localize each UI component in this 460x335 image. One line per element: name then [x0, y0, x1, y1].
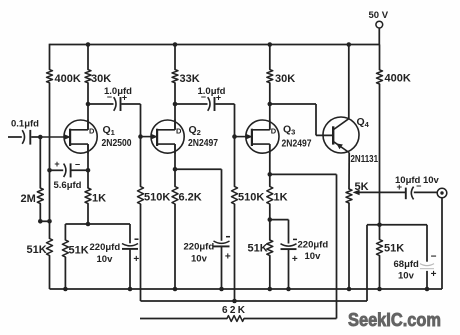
resistor 51K output: [377, 240, 405, 256]
wire bus to 30K stage3: [269, 45, 271, 70]
wire cap to gate Q3: [234, 104, 236, 137]
wire drain node into Q1: [87, 104, 89, 130]
svg-text:1.0μfd: 1.0μfd: [104, 86, 132, 97]
wire 510K down across rail: [140, 204, 142, 301]
svg-text:1K: 1K: [274, 192, 288, 204]
svg-text:50 V: 50 V: [369, 10, 389, 21]
wire 220ufd to rail: [129, 249, 131, 289]
svg-text:6.2K: 6.2K: [179, 192, 202, 204]
junction dot drain node Q2: [173, 102, 178, 107]
wire 510K stage3 to bias line: [234, 204, 236, 301]
wire 400K to source row: [49, 83, 51, 171]
capacitor 1.0ufd stage2: [175, 86, 235, 111]
watermark SeekIC.com: [348, 309, 441, 330]
svg-text:400K: 400K: [55, 73, 81, 85]
wire 30K to drain node: [87, 83, 89, 104]
transistor Q2 2N2497: [151, 120, 218, 154]
svg-text:51K: 51K: [27, 244, 47, 256]
resistor 400K right: [377, 70, 411, 85]
junction dot 400K source row: [47, 168, 52, 173]
wire 400K right to box: [379, 84, 381, 225]
svg-text:220μfd: 220μfd: [184, 242, 215, 253]
wire box to 51K output: [379, 225, 381, 240]
svg-text:SeekIC.com: SeekIC.com: [348, 309, 441, 330]
wire input node to 2M: [39, 137, 41, 188]
wire box top edge: [367, 224, 427, 226]
capacitor 68ufd: [394, 225, 437, 289]
svg-text:10μfd 10v: 10μfd 10v: [395, 175, 440, 186]
svg-text:+: +: [225, 252, 231, 263]
wire 220ufd stage2 to rail: [221, 246, 223, 289]
capacitor 10ufd output: [395, 175, 440, 199]
junction dot rail 6.2K: [173, 287, 178, 292]
wire cap to gate Q2: [140, 104, 142, 137]
capacitor 220ufd stage2: [184, 237, 231, 265]
junction dot rail 220ufd stage2: [219, 287, 224, 292]
svg-text:+: +: [54, 159, 59, 169]
junction dot gate Q3: [232, 134, 237, 139]
wire bus corner to 400K right: [379, 45, 381, 70]
wire 51K to ground rail: [49, 256, 51, 290]
wire bus to 33K: [174, 45, 176, 70]
wire bus to 400K: [49, 44, 51, 70]
transistor Q1 2N2500: [64, 120, 132, 154]
svg-text:62K: 62K: [222, 305, 247, 316]
wire emitter Q4 to 5K: [348, 153, 350, 189]
junction dot source Q2: [173, 167, 178, 172]
svg-text:510K: 510K: [144, 192, 170, 204]
wire box left edge: [366, 225, 368, 301]
resistor 510K stage2: [138, 187, 171, 205]
junction dot rail 51K output: [377, 287, 382, 292]
svg-text:2N2500: 2N2500: [102, 137, 132, 149]
junction dot 510K stage3 bias line: [232, 299, 237, 304]
wire gate arrow Q2: [141, 134, 158, 140]
junction dot rail 5K: [347, 287, 352, 292]
svg-text:30K: 30K: [275, 73, 295, 85]
junction dot collector bus Q4: [347, 42, 352, 47]
wire top supply bus: [50, 44, 380, 46]
resistor 33K: [172, 70, 200, 85]
wire 2M tie to 51K: [49, 221, 51, 238]
wire 1K to row node stage3: [269, 204, 271, 220]
wire source Q3 to 1K: [269, 174, 271, 186]
junction dot 2M tie right: [47, 219, 52, 224]
junction dot gate Q2: [138, 134, 143, 139]
wire row stage3 to cap: [270, 220, 289, 244]
wire source Q1 down: [87, 144, 89, 170]
junction dot 1K bottom stage3: [268, 217, 273, 222]
svg-text:10v: 10v: [191, 254, 208, 265]
resistor 51K stage1 right: [62, 240, 88, 257]
junction dot rail 51K stage3: [268, 287, 273, 292]
wire source Q2 bypass branch: [175, 169, 222, 241]
wire 6.2K to rail: [174, 204, 176, 289]
wire source Q3 down: [269, 144, 271, 174]
wire gate Q3 to 510K: [234, 137, 236, 187]
wire collector Q4 to bus: [348, 45, 350, 119]
wire source Q3 feedback tap: [270, 173, 337, 175]
output terminal jack: [437, 188, 447, 198]
resistor 51K stage1 left: [27, 239, 53, 257]
junction dot drain node Q3: [268, 102, 273, 107]
wire source Q2 to 6.2K: [174, 169, 176, 186]
junction dot source Q3: [268, 172, 273, 177]
wire 33K to drain node: [174, 83, 176, 104]
transistor Q3 2N2497: [246, 120, 312, 154]
resistor 30K stage3: [267, 70, 295, 85]
resistor 51K stage3: [248, 240, 273, 256]
wire gate Q2 to 510K: [140, 137, 142, 187]
wire feedback vertical: [336, 174, 338, 318]
junction dot rail 68ufd: [425, 287, 430, 292]
junction dot drain node Q1: [86, 102, 91, 107]
wire bus to 30K: [87, 45, 89, 70]
wire 220ufd stage3 to rail: [288, 249, 290, 289]
wire 51K output to rail: [379, 256, 381, 290]
wire 51K to rail: [64, 257, 66, 289]
resistor 6.2K: [172, 187, 202, 205]
wire 1K to row node: [87, 204, 89, 225]
svg-text:5.6μfd: 5.6μfd: [54, 180, 82, 191]
wire feedback bottom line: [244, 318, 337, 320]
junction dot drain bus Q1: [86, 42, 91, 47]
wire gate arrow Q3: [235, 134, 253, 140]
wire input node to gate Q1: [40, 134, 71, 140]
svg-text:51K: 51K: [384, 243, 404, 255]
wire drain Q3 to base Q4: [270, 104, 333, 135]
resistor 62K: [222, 305, 247, 321]
junction dot input node: [38, 135, 43, 140]
junction dot drain bus Q2: [173, 42, 178, 47]
svg-text:400K: 400K: [385, 73, 411, 85]
svg-text:33K: 33K: [180, 73, 200, 85]
wire 30K to drain node Q3: [269, 83, 271, 104]
wire row to 220ufd cap: [129, 224, 131, 243]
wire drain node into Q3: [269, 104, 271, 130]
wire source row to 2M tie: [49, 170, 51, 221]
svg-text:D: D: [271, 126, 277, 135]
junction dot drain bus Q3: [268, 42, 273, 47]
wire row to 51K: [64, 224, 66, 240]
capacitor 1.0ufd stage1: [88, 86, 141, 111]
svg-text:10v: 10v: [97, 254, 114, 265]
capacitor 5.6ufd: [50, 159, 89, 191]
wire feedback bottom line left: [140, 318, 227, 320]
wire row node to 51K stage3: [269, 220, 271, 240]
resistor 2M: [21, 188, 44, 205]
svg-text:51K: 51K: [69, 245, 89, 257]
wire 51K stage3 to rail: [269, 256, 271, 290]
svg-text:D: D: [176, 126, 182, 135]
resistor 30K stage1: [85, 70, 111, 85]
wire drain node into Q2: [174, 104, 176, 130]
svg-text:2N2497: 2N2497: [188, 137, 218, 149]
capacitor 220ufd stage1: [90, 239, 140, 265]
junction dot box top 400K: [377, 223, 382, 228]
resistor 400K left: [47, 70, 81, 85]
svg-text:10v: 10v: [305, 251, 322, 262]
capacitor 0.1ufd input: [8, 119, 40, 145]
wire bias line lower: [141, 300, 368, 302]
svg-text:+: +: [133, 254, 139, 265]
junction dot rail 220ufd stage3: [286, 287, 291, 292]
svg-text:0.1μfd: 0.1μfd: [11, 119, 39, 130]
junction dot rail 220ufd stage1: [128, 287, 133, 292]
wire source Q2 down: [174, 144, 176, 169]
svg-text:220μfd: 220μfd: [90, 242, 121, 253]
50V supply terminal: [369, 10, 389, 45]
svg-text:+: +: [431, 269, 437, 280]
svg-text:51K: 51K: [248, 243, 268, 255]
svg-text:1K: 1K: [92, 193, 106, 205]
svg-text:2N2497: 2N2497: [282, 138, 312, 150]
resistor 5K potentiometer: [346, 181, 369, 203]
resistor 1K stage3: [267, 187, 288, 205]
wire 2M to tie: [40, 204, 49, 222]
svg-text:D: D: [89, 126, 95, 135]
svg-text:2M: 2M: [21, 193, 36, 205]
svg-text:68μfd: 68μfd: [394, 259, 420, 270]
capacitor 220ufd stage3: [281, 239, 329, 265]
svg-text:510K: 510K: [238, 192, 264, 204]
svg-text:2N1131: 2N1131: [351, 153, 379, 165]
svg-text:220μfd: 220μfd: [298, 240, 329, 251]
junction dot 2M tie: [38, 219, 43, 224]
resistor 510K stage3: [232, 187, 265, 205]
transistor Q4 2N1131: [323, 116, 378, 165]
wire terminal down to rail: [441, 198, 443, 289]
svg-text:+: +: [292, 254, 298, 265]
svg-text:10v: 10v: [398, 271, 415, 282]
wire source Q1 to 1K: [87, 170, 89, 188]
junction dot 1K bottom stage1: [86, 222, 91, 227]
resistor 1K stage1: [85, 188, 106, 205]
wire ground rail: [50, 288, 443, 290]
svg-text:−: −: [431, 252, 437, 263]
junction dot source Q1: [86, 168, 91, 173]
svg-text:1.0μfd: 1.0μfd: [198, 86, 226, 97]
wire stage1 row: [65, 223, 130, 225]
wire wiper arrow 5K: [353, 190, 406, 196]
wire 5K to rail: [348, 203, 350, 289]
junction dot rail 51K: [63, 287, 68, 292]
svg-text:−: −: [75, 160, 80, 170]
svg-text:30K: 30K: [91, 73, 111, 85]
